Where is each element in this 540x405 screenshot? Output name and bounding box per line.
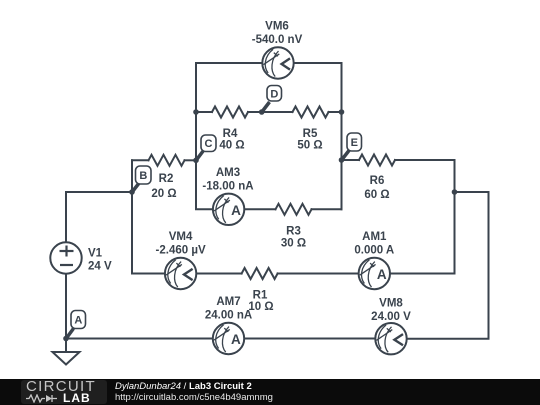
svg-text:24.00 nA: 24.00 nA	[205, 310, 252, 322]
svg-text:VM8: VM8	[379, 298, 403, 310]
svg-text:60 Ω: 60 Ω	[364, 189, 389, 201]
svg-text:24 V: 24 V	[88, 261, 112, 273]
svg-text:24.00 V: 24.00 V	[371, 311, 411, 323]
svg-text:AM3: AM3	[216, 167, 240, 179]
svg-text:30 Ω: 30 Ω	[281, 238, 306, 250]
svg-text:A: A	[377, 267, 387, 282]
svg-text:-540.0 nV: -540.0 nV	[252, 34, 303, 46]
svg-text:40 Ω: 40 Ω	[219, 140, 244, 152]
svg-text:R1: R1	[253, 289, 268, 301]
svg-text:R3: R3	[286, 225, 301, 237]
svg-text:10 Ω: 10 Ω	[248, 301, 273, 313]
svg-text:R4: R4	[223, 128, 238, 140]
svg-text:-18.00 nA: -18.00 nA	[202, 180, 253, 192]
svg-text:R5: R5	[303, 128, 318, 140]
svg-text:50 Ω: 50 Ω	[297, 140, 322, 152]
svg-text:AM7: AM7	[216, 296, 240, 308]
svg-text:-2.460 µV: -2.460 µV	[156, 245, 206, 257]
svg-text:A: A	[231, 203, 241, 218]
svg-text:R6: R6	[370, 175, 385, 187]
svg-text:AM1: AM1	[362, 231, 387, 243]
svg-text:VM4: VM4	[169, 231, 193, 243]
svg-text:V1: V1	[88, 248, 103, 260]
svg-text:B: B	[139, 170, 147, 182]
svg-text:0.000 A: 0.000 A	[354, 245, 394, 257]
svg-text:A: A	[231, 332, 241, 347]
svg-text:VM6: VM6	[265, 21, 289, 33]
svg-text:E: E	[351, 137, 358, 149]
svg-text:C: C	[205, 138, 213, 150]
svg-text:D: D	[270, 88, 278, 100]
svg-text:20 Ω: 20 Ω	[151, 188, 176, 200]
svg-text:R2: R2	[159, 173, 174, 185]
svg-text:A: A	[74, 315, 82, 327]
